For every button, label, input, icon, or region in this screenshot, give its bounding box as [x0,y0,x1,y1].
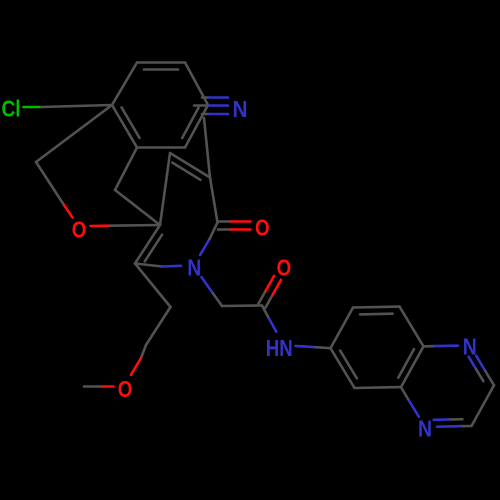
benzo aromatic inner lines [360,312,393,315]
NH-aryl bond [296,346,316,347]
pyrazine N1-C4a bond [408,399,419,417]
pyridinone ring [210,178,218,223]
C6-CH2 bond [135,264,171,308]
chlorophenyl ring [112,63,137,106]
svg-text:N: N [187,255,201,281]
CH2 to ring C5 [115,190,160,225]
lactam C=O double bond [218,220,231,223]
aromatic inner lines [144,68,178,71]
CH2-CH2 bond [146,307,171,345]
chain CH2 up to phenyl [36,105,112,162]
svg-text:O: O [255,214,270,240]
ring double bond inner lines [172,163,200,180]
pyrazine C8a-N4 bond [424,345,436,348]
N-CH2 acetamide bond [202,277,214,293]
N-C2 bond [200,239,209,255]
pyrazine C2=N1 double bond [460,425,472,428]
nitrile stem from ring C3 [204,118,210,178]
svg-text:O: O [72,216,87,242]
C#N triple bond [202,96,209,99]
O-CH3 bond [101,385,114,388]
quinoxaline benzo ring [331,308,354,349]
svg-text:N: N [463,333,477,359]
svg-text:O: O [118,376,133,402]
pyrazine N4=C3 double bond [476,356,485,371]
benzylic CH2 from ring [115,148,137,191]
svg-text:Cl: Cl [2,96,21,122]
CH2-OMe bond [141,345,146,358]
Cl-C bond [24,106,42,109]
C-NH bond [262,306,269,319]
O-CH2 bond (up-left chain) [36,162,64,205]
CH2-C(=O) bond [222,304,262,307]
O-C5 bond [91,224,111,227]
svg-text:N: N [418,416,432,442]
svg-text:O: O [277,254,292,280]
C6-N bond [135,264,162,267]
svg-text:HN: HN [266,335,293,361]
pyrazine C3-C2 bond [472,385,495,426]
amide C=O double bond [266,295,273,308]
svg-text:N: N [233,96,248,122]
